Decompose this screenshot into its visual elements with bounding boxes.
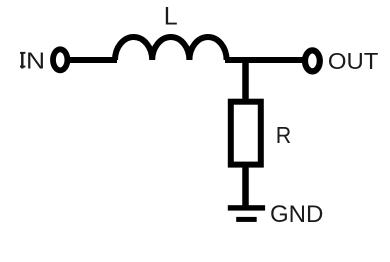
svg-text:GND: GND <box>270 201 323 228</box>
ground (top bar) <box>228 205 265 210</box>
ground (bottom bar) <box>236 217 257 222</box>
svg-text:IN: IN <box>19 47 45 73</box>
inductor L (3-hump coil) <box>115 37 227 60</box>
node IN label <box>19 47 45 73</box>
wire: resistor to ground <box>242 164 249 207</box>
terminal OUT (circle) <box>305 50 320 71</box>
svg-text:L: L <box>164 2 178 30</box>
terminal IN (circle) <box>53 49 67 70</box>
wire: IN terminal to inductor <box>66 57 117 63</box>
resistor R (body) <box>231 102 261 165</box>
svg-text:OUT: OUT <box>328 48 379 74</box>
wire: junction down to resistor <box>242 57 249 104</box>
wire: inductor to OUT terminal (through junction) <box>225 57 305 63</box>
svg-text:R: R <box>276 122 292 148</box>
